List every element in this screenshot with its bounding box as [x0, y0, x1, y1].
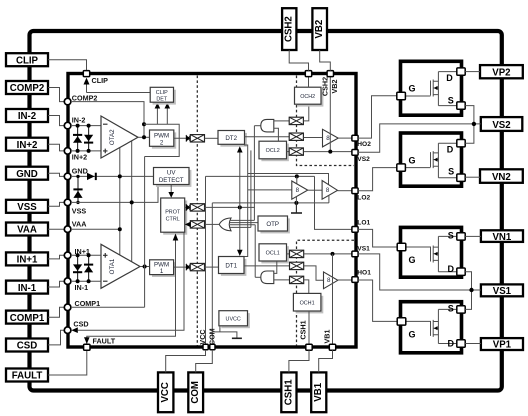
svg-text:IN-2: IN-2 [72, 115, 86, 124]
junction OTA1 output [143, 265, 147, 269]
dashed high-side well CH2 [297, 76, 355, 166]
wire S1 to VS2 [465, 106, 474, 144]
pin VB2 [312, 8, 327, 50]
COM return line [212, 202, 329, 204]
wire PWM1 output [174, 266, 191, 268]
svg-text:VP2: VP2 [492, 68, 510, 79]
node CSH2 top [305, 71, 311, 77]
level shifter OCH2 [289, 117, 303, 124]
svg-text:D: D [448, 264, 455, 274]
svg-text:DT1: DT1 [225, 263, 237, 270]
pin VP2 [480, 65, 523, 78]
svg-text:CSH2: CSH2 [320, 77, 329, 96]
node VSS [64, 199, 71, 206]
svg-text:VN1: VN1 [492, 232, 511, 243]
svg-text:VN2: VN2 [492, 172, 511, 183]
riser AND2 output [253, 126, 255, 221]
svg-text:CLIP: CLIP [16, 55, 39, 66]
node COM bottom [210, 344, 215, 350]
wire VS1 net [358, 254, 481, 290]
junction COM tri1 [294, 201, 298, 205]
wire HO2 to G1 [358, 96, 397, 138]
svg-text:HO2: HO2 [357, 141, 371, 148]
wire GND line to UV DETECT [71, 175, 154, 177]
svg-text:CSD: CSD [17, 341, 37, 352]
op-amp OTA2 [101, 116, 138, 158]
block OCH2 [295, 87, 324, 106]
svg-text:CSH1: CSH1 [298, 320, 307, 339]
pin VN2 [480, 169, 523, 183]
svg-text:S: S [448, 95, 454, 105]
junction VB2 on VS2 line [328, 150, 332, 154]
svg-text:VP1: VP1 [493, 340, 512, 351]
block PROT CTRL [161, 198, 188, 235]
OR input stubs [230, 219, 254, 221]
LO input line H3 [248, 189, 292, 191]
AND1 input from OCL1 [274, 261, 277, 273]
wire stage1 to stage2 [308, 189, 322, 191]
VB2 riser through driver [329, 77, 331, 152]
wire OCL1 to VS1 shifter [287, 253, 290, 255]
FET box CH2 high [397, 61, 465, 115]
riser OCmon up [250, 150, 252, 227]
level shifter VS2 [289, 148, 303, 155]
clamp diode pair CH1 legs [77, 255, 79, 281]
svg-text:S: S [448, 231, 454, 241]
node IN+1 [64, 252, 71, 259]
junction VS1 ext [469, 288, 473, 292]
wire VAA pin to node [48, 228, 64, 230]
clip sense riser ch1 [144, 157, 146, 308]
wire PWM2 output [174, 137, 190, 139]
DT2 corner stub [244, 145, 248, 257]
wire VSS line to UVDET riser [71, 185, 158, 203]
svg-text:CSH1: CSH1 [283, 379, 294, 405]
svg-text:PROT: PROT [165, 209, 181, 215]
svg-text:VS2: VS2 [492, 120, 510, 131]
svg-text:G: G [409, 83, 416, 93]
node IN-1 [64, 278, 71, 285]
dashed partition center [196, 76, 198, 346]
PROT mute entry mark [186, 204, 191, 211]
svg-text:LO1: LO1 [357, 220, 370, 227]
wire LO2 to G2 [358, 168, 397, 191]
svg-text:1: 1 [160, 268, 164, 275]
wire COM pin entry [196, 350, 213, 373]
FET box CH2 low [397, 133, 465, 186]
wire IN-1 to OTA1 [71, 280, 101, 282]
svg-text:CSH2: CSH2 [284, 16, 295, 42]
wire IN+2 pin to node [48, 144, 64, 151]
svg-text:CLIP: CLIP [156, 90, 168, 96]
VCC rail horizontal H2 [206, 175, 315, 177]
svg-text:VS1: VS1 [357, 246, 370, 253]
level shifter PWM2 [190, 135, 204, 142]
wire HO1 driver to node [338, 279, 352, 281]
wire to DT2 [205, 137, 219, 139]
svg-text:VSS: VSS [17, 202, 37, 213]
wire GND pin to node [48, 173, 64, 176]
node FAULT [84, 344, 90, 350]
wire LO1 to G3 [358, 229, 397, 247]
svg-text:IN+2: IN+2 [72, 152, 87, 161]
block UVCC [219, 311, 250, 329]
level shifter MUTE [190, 204, 204, 211]
wire D1 to VP2 [465, 71, 480, 73]
junction VCC rail tri1 [295, 174, 299, 178]
node VB2 top [327, 71, 333, 77]
junction VS2 ext [472, 122, 476, 126]
node COMP1 [64, 304, 71, 311]
diode D2b [84, 135, 93, 144]
svg-text:2: 2 [160, 139, 164, 146]
junction dots IN2 diodes [76, 124, 80, 128]
mute line PROT to DT tees [185, 206, 191, 208]
svg-text:CTRL: CTRL [166, 216, 180, 222]
diode GND-VSS [73, 188, 82, 198]
wire VS2 sense line [304, 151, 353, 153]
wire into PROT with arrow [185, 223, 191, 225]
svg-text:VB1: VB1 [313, 382, 324, 401]
level shifter HO2 [289, 133, 303, 140]
svg-text:UV: UV [167, 169, 176, 176]
junction dots IN1 diodes [76, 253, 80, 257]
clip sense loop upper [144, 124, 179, 156]
wire IN+1 pin to node [48, 255, 64, 259]
svg-text:DETECT: DETECT [159, 177, 184, 184]
node LO1 [352, 227, 358, 233]
svg-text:COMP2: COMP2 [10, 83, 44, 94]
wire CSH1 pin entry [289, 350, 309, 372]
pin CSH1 [281, 372, 296, 412]
svg-text:IN-1: IN-1 [75, 283, 89, 292]
svg-text:8: 8 [326, 135, 330, 142]
block DT2 [218, 131, 247, 147]
CLIP DET input arrows [156, 108, 158, 125]
svg-text:D: D [446, 73, 453, 83]
svg-text:S: S [448, 304, 454, 314]
svg-text:VB2: VB2 [330, 80, 339, 94]
svg-text:OTP: OTP [266, 221, 279, 228]
AND gate CH1 [261, 271, 274, 284]
node GND [64, 173, 71, 180]
svg-text:PWM: PWM [154, 132, 169, 139]
wire FAULT pin to node [48, 351, 87, 376]
PWM1 level-shift entry mark [186, 264, 191, 271]
riser to DT2 with arrow [239, 152, 241, 208]
junction mute [238, 205, 242, 209]
wire OCH1 riser to shifter [304, 280, 309, 294]
CSD sense line [78, 232, 184, 330]
wire CLIP pin to node [48, 60, 87, 71]
wire DT1 to HO1 shifter [244, 265, 290, 267]
svg-text:OTA2: OTA2 [109, 129, 116, 145]
svg-text:VAA: VAA [17, 225, 37, 236]
svg-text:IN+2: IN+2 [17, 140, 38, 151]
svg-text:VS1: VS1 [493, 286, 512, 297]
node CLIP [83, 71, 89, 77]
pin VAA [6, 223, 48, 236]
CSH1 riser [308, 311, 310, 345]
svg-text:OCL2: OCL2 [266, 148, 280, 154]
svg-text:D: D [447, 145, 454, 155]
svg-text:G: G [409, 255, 416, 265]
wire HO2 shifter to driver [304, 137, 323, 139]
pin IN-2 [6, 109, 48, 122]
pin VS1 [481, 284, 523, 297]
CLIP output arrow [84, 78, 90, 85]
AND2 input from OCH2 shifter [274, 120, 289, 122]
wire COMP1 to OTA1 output [71, 306, 145, 308]
wire to DT1 [205, 266, 219, 268]
LO feed line H1 [248, 174, 329, 185]
node VB1 bottom [329, 344, 335, 350]
driver LO stage2 [322, 181, 337, 200]
CSH2 riser [308, 77, 310, 88]
diode D1b [84, 264, 93, 273]
node VAA [64, 226, 71, 233]
diode D2a [73, 134, 82, 143]
wire S2 to VN2 [465, 176, 480, 178]
AND2 input from OCL2 [274, 128, 279, 141]
driver HO1 [324, 272, 338, 289]
pin VN1 [481, 230, 523, 243]
svg-text:IN-2: IN-2 [18, 111, 36, 122]
pin FAULT [6, 369, 48, 382]
FET box CH1 high [397, 227, 465, 277]
FAULT line [87, 240, 176, 344]
stub tri2 bottom [328, 195, 330, 203]
svg-text:COMP1: COMP1 [75, 299, 101, 308]
wire COMP2 pin to node [48, 88, 64, 102]
wire IN-2 pin to node [48, 116, 64, 126]
wire VSS pin to node [48, 202, 64, 206]
junction VB1 on VS1 line [331, 252, 335, 256]
op-amp OTA1 [101, 244, 140, 288]
svg-text:DET: DET [156, 96, 167, 102]
svg-text:8: 8 [296, 187, 300, 194]
node IN+2 [64, 148, 71, 155]
FAULT arrow at node [84, 337, 90, 344]
wire HO1 shifter to driver with jog [304, 266, 324, 280]
protection OR gate [219, 218, 231, 231]
pin GND [6, 167, 48, 180]
svg-text:VS2: VS2 [357, 156, 370, 163]
pin IN+1 [6, 252, 48, 265]
node CSD [64, 327, 71, 334]
FET box CH1 low [397, 302, 465, 353]
OR output line to shifter [205, 223, 220, 225]
pin CSH2 [282, 8, 296, 50]
pin COMP2 [6, 81, 48, 94]
svg-text:OCH2: OCH2 [300, 94, 315, 100]
block OTP [258, 216, 290, 233]
stub tri1 bottom [295, 197, 297, 203]
svg-text:IN+1: IN+1 [17, 255, 38, 266]
node HO1 [352, 277, 358, 283]
svg-text:HO1: HO1 [357, 270, 371, 277]
AND gate CH2 [261, 119, 274, 131]
svg-text:G: G [409, 155, 416, 165]
svg-text:OTA1: OTA1 [109, 258, 116, 274]
pin COM [188, 372, 203, 412]
wire OTA1 output to PWM1 [140, 266, 150, 268]
svg-text:DT2: DT2 [225, 135, 237, 142]
svg-text:LO2: LO2 [357, 195, 370, 202]
wire VCC pin entry [166, 350, 206, 373]
COM rail riser [211, 203, 213, 345]
wire VB2 pin entry [320, 50, 331, 71]
svg-text:VAA: VAA [72, 219, 87, 228]
wire IN+1 to OTA1 [71, 254, 101, 256]
block UV DETECT [154, 168, 192, 187]
level shifter HO1 [290, 262, 304, 269]
wire IN-1 pin to node [48, 281, 64, 287]
svg-text:VCC: VCC [198, 329, 207, 344]
wire IN-2 to OTA2 inverting input [71, 125, 101, 127]
driver LO stage1 [292, 181, 308, 199]
svg-text:COM: COM [207, 328, 216, 345]
node VS2 [352, 150, 358, 156]
dashed high-side well CH1 [297, 240, 355, 345]
wire HO2 driver to node [338, 137, 352, 139]
svg-text:FAULT: FAULT [93, 336, 116, 345]
clamp diode pair CH2 legs [77, 126, 79, 151]
bias rail riser A [119, 147, 121, 255]
block CLIP DET [150, 87, 176, 104]
wire VS2 net [358, 124, 481, 152]
node VCC bottom [203, 344, 208, 350]
svg-text:VCC: VCC [160, 382, 171, 402]
node VS1 [352, 251, 358, 257]
level shifter OCH1 [290, 276, 304, 283]
pin CLIP [6, 53, 48, 66]
svg-text:COM: COM [190, 381, 201, 404]
svg-text:UVCC: UVCC [226, 317, 241, 323]
riser AND1 output [254, 225, 256, 278]
node LO2 [352, 188, 358, 194]
FAULT riser arrow into PROT [173, 234, 179, 241]
wire stage2 to LO2 node [338, 190, 353, 192]
svg-text:D: D [448, 339, 455, 349]
wire D3 S4 to VS1 [465, 272, 471, 310]
pin CSD [6, 339, 48, 352]
block DT1 [219, 257, 247, 276]
wire CSH2 pin entry [289, 50, 308, 71]
IC boundary box [68, 74, 356, 348]
svg-text:VB1: VB1 [323, 330, 332, 344]
pin IN-1 [6, 281, 48, 294]
VCC rail riser [205, 176, 207, 344]
pin IN+2 [6, 138, 48, 151]
UVCC ground tie [212, 326, 237, 338]
pin VB1 [311, 372, 326, 412]
block OCH1 [293, 293, 323, 313]
svg-text:GND: GND [16, 169, 38, 180]
svg-text:OCL1: OCL1 [266, 251, 280, 257]
wire OCL2 to VS2 shifter [287, 151, 290, 153]
wire HO1 to G4 [358, 280, 397, 321]
level shifter OR-PROT [190, 221, 204, 228]
svg-text:OCH1: OCH1 [300, 300, 315, 306]
pin VCC [158, 372, 173, 412]
wire COMP2 to OTA2 output riser [71, 102, 144, 138]
svg-text:IN-1: IN-1 [18, 283, 37, 294]
svg-text:8: 8 [327, 277, 331, 284]
block PWM2 [150, 130, 177, 149]
block OCL2 [259, 141, 289, 161]
wire VAA line [71, 228, 120, 230]
svg-text:GND: GND [72, 167, 88, 176]
VB1 riser through driver [332, 254, 334, 345]
node CSH1 bottom [306, 344, 312, 350]
stub into tri1 top [296, 176, 298, 184]
AND2 output stub [254, 125, 260, 127]
wire VS1 sense line [304, 253, 352, 255]
level shifter VS1 [290, 250, 304, 257]
AND1 output stub [255, 276, 261, 278]
junction dots GND/VSS clamp [76, 175, 79, 178]
package outline loop [30, 31, 502, 391]
svg-text:S: S [448, 167, 454, 177]
wire D4 to VP1 [465, 343, 481, 345]
svg-text:CLIP: CLIP [92, 76, 109, 85]
pin COMP1 [6, 311, 48, 324]
svg-text:VB2: VB2 [314, 20, 325, 39]
node IN-2 [64, 122, 71, 129]
block PWM1 [150, 260, 176, 277]
wire CLIP DET output [87, 92, 151, 94]
svg-text:CSD: CSD [73, 320, 88, 329]
mute line continues [205, 206, 255, 208]
clamp diode GND-VSS leg [77, 176, 79, 202]
pin VS2 [481, 117, 523, 131]
node HO2 [352, 135, 358, 141]
driver HO2 [323, 129, 339, 147]
junction OTA2 output [142, 135, 146, 139]
pin VP1 [481, 338, 523, 351]
wire VB1 pin entry [319, 350, 333, 372]
wire COMP1 pin to node [48, 307, 64, 317]
LO1 return path riser [315, 176, 353, 229]
wire OCH2 to shifter [304, 104, 309, 121]
svg-text:FAULT: FAULT [12, 371, 43, 382]
riser to DT1 with arrow [239, 207, 241, 250]
svg-text:8: 8 [326, 187, 330, 194]
PWM2 level-shift entry mark [186, 135, 191, 142]
ground symbol LO drivers [295, 203, 297, 213]
wire CSD pin to node [48, 330, 64, 345]
CSD arrow at node [71, 327, 78, 333]
diode D1a [73, 264, 82, 273]
svg-text:COMP1: COMP1 [10, 313, 45, 324]
wire S3 to VN1 [465, 235, 481, 237]
wire OTA2 output to PWM2 [138, 136, 150, 138]
pin VSS [6, 200, 48, 213]
svg-text:VSS: VSS [72, 207, 87, 216]
wire DT2 to HO2 shifter [245, 136, 290, 138]
block OCL1 [259, 244, 289, 264]
wire IN+2 to OTA2 non-inverting input [71, 150, 101, 152]
diode GND series [87, 173, 97, 180]
UV DETECT to PROT arrow [170, 185, 172, 194]
bias rail riser B [131, 141, 133, 262]
level shifter PWM1 [190, 263, 204, 270]
junction on CLIPDET tap [142, 122, 146, 126]
AND1 input from OCH1 shifter [274, 279, 290, 281]
junction dots bias rails [118, 174, 122, 178]
node COMP2 [64, 98, 71, 105]
